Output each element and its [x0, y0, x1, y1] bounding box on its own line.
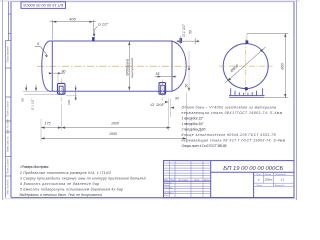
svg-text:G 1/2": G 1/2"	[98, 23, 109, 27]
svg-text:Масштаб: Масштаб	[275, 174, 286, 176]
svg-text:5 Емкость подвергнуть испытани: 5 Емкость подвергнуть испытанием давлени…	[20, 188, 123, 192]
svg-text:2 патрубка Ду60: 2 патрубка Ду60	[181, 127, 206, 131]
dimension row 175 / 1000	[41, 122, 170, 129]
dimension 80 (drain offset)	[49, 70, 66, 83]
svg-text:1550: 1550	[109, 132, 117, 136]
internal diameter dimension	[125, 42, 134, 91]
svg-text:1 патрубок 3/4": 1 патрубок 3/4"	[182, 122, 205, 126]
bottom right nozzle G3/4	[159, 83, 166, 95]
dimension 55 (right bottom nozzle)	[155, 72, 177, 78]
svg-text:№ докум.: № докум.	[179, 179, 189, 182]
title block small headers	[164, 174, 286, 197]
technical characteristics block	[181, 105, 286, 148]
svg-text:1000: 1000	[111, 122, 119, 126]
sheet background	[0, 0, 300, 200]
svg-text:Подп.: Подп.	[194, 179, 200, 182]
title block outer frame	[164, 161, 295, 198]
drain leader labels rotated	[21, 85, 57, 111]
svg-text:1 Размеры для справок.: 1 Размеры для справок.	[20, 165, 49, 169]
svg-text:Подп. и дата: Подп. и дата	[7, 158, 10, 174]
technical notes bottom left	[19, 165, 146, 197]
svg-text:Опоры лист 4 Ст3 ГОСТ 380-88.: Опоры лист 4 Ст3 ГОСТ 380-88.	[182, 144, 228, 148]
svg-text:G 1 1/2": G 1 1/2"	[31, 98, 35, 110]
svg-text:днище эллиптическое 600х6-205: днище эллиптическое 600х6-205 ГОСТ 6533-…	[182, 133, 276, 137]
svg-text:Инв. № дубл: Инв. № дубл	[7, 119, 10, 134]
svg-text:нержавеющая сталь 08Х17ГОСТ 19: нержавеющая сталь 08Х17ГОСТ 19903-74, S-…	[182, 111, 283, 115]
sheet trim edge right	[296, 0, 298, 200]
right top nozzle dimension 50 and label	[177, 23, 200, 44]
svg-text:3 Сварку производить сварные ш: 3 Сварку производить сварные швы по конт…	[20, 176, 146, 180]
left margin column lines	[6, 2, 12, 198]
svg-text:1:1: 1:1	[280, 178, 285, 182]
svg-text:Лит.: Лит.	[255, 174, 262, 176]
svg-text:Ø600(вн): Ø600(вн)	[125, 59, 129, 77]
svg-text:Изм.: Изм.	[164, 180, 169, 182]
drain nozzle	[58, 83, 66, 94]
small dimension arrows right nozzle	[165, 99, 174, 131]
svg-text:Инв. № подл.: Инв. № подл.	[7, 179, 10, 195]
svg-text:80: 80	[62, 70, 66, 74]
svg-text:50: 50	[189, 30, 193, 34]
svg-text:60: 60	[21, 98, 25, 102]
svg-text:55: 55	[156, 72, 160, 76]
vertical dimension at drain nozzle	[66, 85, 78, 105]
dimension 50 vertical near right head	[185, 51, 190, 92]
drawing frame border	[11, 2, 294, 198]
dimension 1550 overall	[41, 132, 186, 140]
svg-text:Лист: Лист	[256, 185, 263, 187]
svg-text:Масса: Масса	[265, 174, 272, 176]
top nozzle G1/2	[92, 37, 94, 41]
left elliptical head	[42, 41, 49, 91]
svg-text:G 1 1/2": G 1 1/2"	[182, 23, 186, 36]
right head top nozzle G1 1/2	[180, 38, 182, 43]
saddle support	[229, 88, 265, 97]
top stamp box	[21, 2, 66, 9]
tank centerline (main view)	[37, 65, 191, 67]
end view bottom drain	[245, 87, 248, 90]
svg-text:G 3/4": G 3/4"	[150, 103, 165, 107]
svg-text:1 патрубок 1/2": 1 патрубок 1/2"	[182, 116, 205, 120]
end view vertical centerline	[245, 40, 247, 100]
svg-text:Выдержать в течении 8мин. Течь: Выдержать в течении 8мин. Течь не допуск…	[20, 193, 103, 197]
svg-text:50: 50	[185, 84, 189, 88]
svg-text:нержавеющая сталь 08 Х17 Г ГОС: нержавеющая сталь 08 Х17 Г ГОСТ 19903-74…	[182, 138, 286, 142]
sheet trim edge top	[0, 0, 300, 2]
label G1/2 with leader	[93, 23, 109, 37]
dimension 860	[247, 33, 289, 97]
right head weld seam	[171, 41, 173, 91]
svg-text:внутренний: внутренний	[130, 58, 134, 78]
svg-text:175: 175	[45, 122, 51, 126]
drain nozzle centerline	[60, 79, 62, 102]
dimension 400	[50, 20, 96, 40]
svg-text:100: 100	[67, 100, 71, 105]
svg-text:4 Емкость рассчитана не давлен: 4 Емкость рассчитана не давление бар	[20, 182, 99, 186]
extension lines bottom dimensions	[41, 93, 186, 142]
diameter dimension D600	[225, 47, 266, 83]
svg-text:Подп. и дата: Подп. и дата	[7, 101, 10, 117]
left head weld seam	[51, 41, 53, 91]
svg-text:200кг: 200кг	[264, 178, 273, 182]
svg-text:80: 80	[175, 97, 179, 101]
svg-text:Дата: Дата	[203, 180, 211, 182]
weld callout 6	[35, 42, 48, 57]
sheet trim edge left	[2, 0, 4, 200]
svg-text:БП 19 00 00 00 000СБ: БП 19 00 00 00 000СБ	[23, 3, 63, 8]
svg-text:2 Предельные отклонения размер: 2 Предельные отклонения размеров h14, ± …	[19, 171, 111, 175]
end view shell circle	[223, 44, 268, 89]
svg-text:Листов 1: Листов 1	[274, 185, 286, 187]
svg-text:Объем бака – V=400л изготовле: Объем бака – V=400л изготовлен из матери…	[182, 105, 277, 109]
left margin rotated captions	[7, 46, 10, 195]
svg-text:Утв.: Утв.	[164, 195, 169, 197]
tank shell top line	[49, 40, 172, 42]
title block values	[257, 178, 285, 182]
title block right grid	[254, 172, 294, 186]
bottom right nozzle centerline	[161, 80, 163, 101]
svg-text:400: 400	[69, 16, 76, 21]
title block thin grid left	[164, 161, 211, 198]
end view horizontal centerline	[219, 65, 273, 67]
tank shell bottom line	[49, 90, 172, 92]
svg-text:6: 6	[37, 42, 39, 46]
svg-text:Лист: Лист	[169, 180, 176, 182]
svg-text:Перв. примен.: Перв. примен.	[7, 46, 10, 63]
svg-text:Взам. инв. №: Взам. инв. №	[7, 136, 10, 152]
right elliptical head	[172, 41, 186, 91]
sheet trim edge bottom	[3, 198, 297, 200]
end view top nozzle	[246, 40, 249, 44]
svg-text:Т.контр.: Т.контр.	[164, 187, 173, 189]
svg-text:860: 860	[281, 62, 285, 69]
svg-text:БП 19 00 00 00 000СБ: БП 19 00 00 00 000СБ	[223, 166, 283, 172]
